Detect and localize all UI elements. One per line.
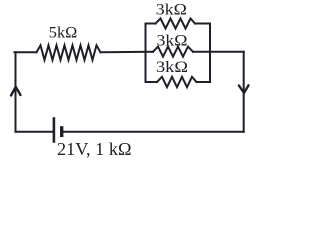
svg-text:3kΩ: 3kΩ [156,2,187,19]
wire top branch left [146,23,156,25]
current arrow down (right wire) [239,85,249,93]
wire top middle segment [101,51,154,53]
wire bottom branch left [146,81,158,83]
wire bottom-right segment [63,131,244,133]
wire middle branch right [193,51,210,53]
resistor R2 3kOhm (top branch) zigzag [156,19,196,29]
svg-text:21V, 1 kΩ: 21V, 1 kΩ [57,139,132,159]
node left junction / box left edge [145,24,147,83]
current arrow up (left wire) [11,87,21,96]
battery V1 long plate (positive) [53,117,56,143]
wire top-right segment [210,51,244,53]
wire bottom branch right [197,81,211,83]
resistor R1 5kOhm zigzag [37,45,101,60]
resistor R3 3kOhm (middle branch) zigzag [153,47,193,57]
wire left vertical [15,52,17,132]
wire right vertical [243,52,245,132]
svg-text:5kΩ: 5kΩ [49,25,78,42]
svg-text:3kΩ: 3kΩ [156,59,188,76]
resistor R4 3kOhm (bottom branch) zigzag [157,77,197,87]
wire top-left segment [15,51,37,53]
svg-text:3kΩ: 3kΩ [157,33,188,50]
wire top branch right [195,23,210,25]
node right junction / box right edge [209,24,211,83]
battery V1 short plate (negative) [60,126,63,137]
wire bottom-left segment [16,131,53,133]
